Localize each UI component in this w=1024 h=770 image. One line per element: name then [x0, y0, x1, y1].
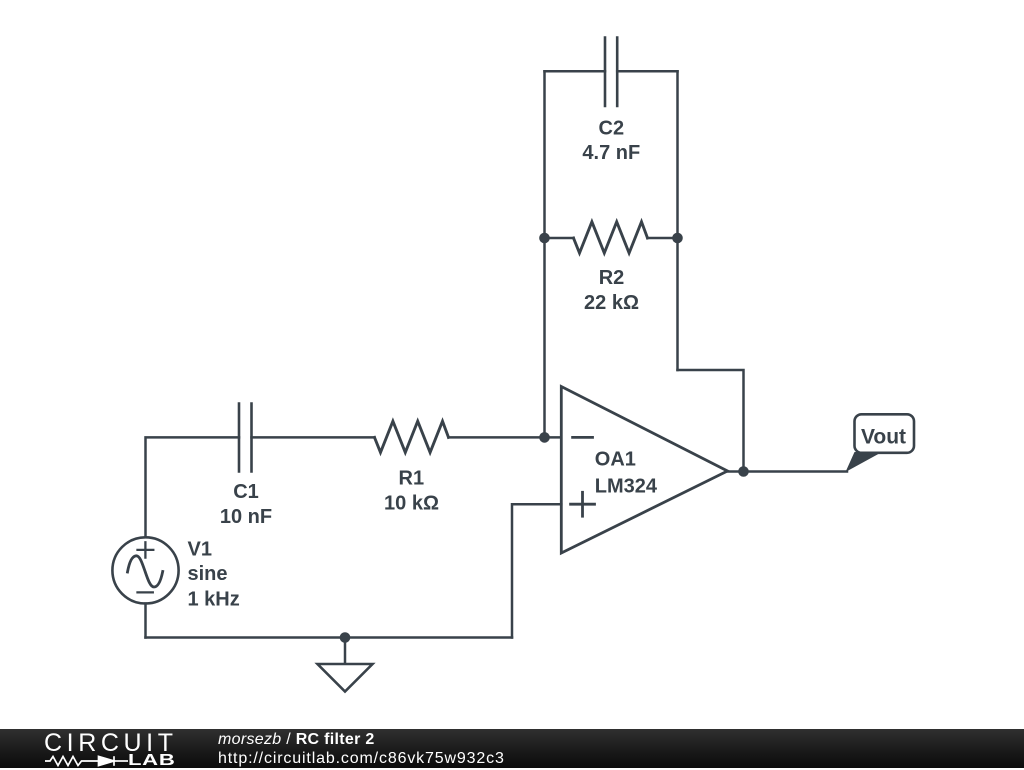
capacitor C1: [239, 404, 252, 472]
svg-text:10 kΩ: 10 kΩ: [384, 493, 439, 515]
footer bar: [0, 729, 1024, 768]
svg-text:C1: C1: [233, 481, 259, 503]
svg-text:10 nF: 10 nF: [220, 506, 272, 528]
ground symbol: [318, 638, 373, 692]
wire: feedback right vertical: [676, 71, 679, 370]
CircuitLab logo LAB: [128, 752, 175, 770]
svg-text:R2: R2: [599, 267, 625, 289]
svg-text:V1: V1: [188, 538, 212, 560]
node: junction R2 left on feedback vertical: [539, 233, 550, 244]
label C2 value: [582, 118, 640, 165]
node: junction inverting input: [539, 432, 550, 443]
op-amp OA1 minus symbol: [573, 436, 593, 439]
voltage source V1 sine wave: [128, 556, 163, 587]
svg-text:Vout: Vout: [861, 425, 906, 448]
wire: V1 bottom to ground rail: [144, 604, 147, 638]
resistor R1: [375, 421, 449, 452]
voltage source V1 circle: [112, 537, 178, 603]
wire: R2 left lead: [545, 237, 574, 240]
wire: feedback step to output node: [678, 370, 744, 472]
wire: C1 right plate to R1: [252, 436, 375, 439]
voltage source V1 minus mark: [138, 591, 153, 593]
wire: C2 right plate to right vertical: [617, 70, 677, 73]
node: junction R2 right on feedback vertical: [672, 233, 683, 244]
node: junction output: [738, 466, 749, 477]
svg-text:LM324: LM324: [595, 476, 658, 498]
label V1 value: [188, 538, 240, 610]
label R2 value: [584, 267, 639, 314]
label OA1 value: [595, 449, 658, 498]
svg-text:OA1: OA1: [595, 449, 636, 471]
net flag Vout box: [855, 414, 915, 453]
wire: feedback left vertical (node A down to inverting input node): [543, 71, 546, 437]
wire: non-inverting input path from ground net: [512, 504, 561, 637]
label R1 value: [384, 468, 439, 515]
wire: top horizontal to C2 left plate: [545, 70, 606, 73]
footer title morsezb / RC filter 2: [218, 731, 375, 749]
CircuitLab logo resistor-diode symbol: [44, 754, 134, 768]
wire: R1 to op-amp inverting input: [449, 436, 562, 439]
footer url: [218, 750, 505, 768]
wire: R2 right lead: [648, 237, 678, 240]
CircuitLab logo CIRCUIT: [44, 729, 178, 758]
wire: bottom ground rail: [146, 636, 513, 639]
wire: op-amp output to Vout tail: [728, 470, 848, 473]
op-amp OA1 plus symbol: [571, 492, 595, 516]
wire: V1 top to C1 (left vertical + horizontal to C1 left plate): [146, 437, 240, 537]
svg-text:22 kΩ: 22 kΩ: [584, 292, 639, 314]
node: junction ground rail: [340, 632, 351, 643]
resistor R2: [574, 222, 648, 253]
op-amp OA1 triangle: [561, 387, 727, 554]
svg-text:R1: R1: [399, 468, 425, 490]
capacitor C2: [605, 38, 617, 107]
svg-text:1 kHz: 1 kHz: [188, 589, 240, 611]
voltage source V1 plus mark: [138, 542, 154, 557]
label C1 value: [220, 481, 272, 528]
svg-text:C2: C2: [599, 118, 625, 140]
net flag Vout tail: [846, 452, 883, 472]
label Vout: [861, 425, 906, 448]
svg-text:4.7 nF: 4.7 nF: [582, 142, 640, 164]
svg-text:sine: sine: [188, 563, 228, 585]
